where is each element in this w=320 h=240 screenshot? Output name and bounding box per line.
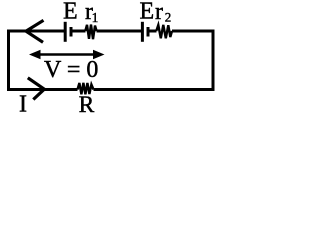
battery cell E1 long plate [64,22,67,42]
resistor R zigzag [78,83,94,95]
wire top segment from left corner to cell E1 [7,30,64,33]
wire bottom segment from resistor R to right corner [94,88,215,91]
arrow current direction on top wire (pointing left) [26,20,44,42]
wire right vertical [212,30,215,91]
label r2 (internal resistance) [155,0,171,25]
label R (load resistor) [79,92,95,118]
svg-text:V = 0: V = 0 [44,57,98,83]
arrow current direction on bottom wire (pointing right) [28,78,45,100]
wire between cell E2 and resistor r2 [148,30,157,33]
resistor r1 zigzag [85,25,96,40]
label E (cell E1) [63,0,78,25]
svg-text:2: 2 [165,9,172,24]
svg-text:R: R [79,92,95,118]
svg-text:I: I [19,92,27,118]
svg-text:E: E [63,0,78,25]
battery cell E2 long plate [141,22,144,42]
wire bottom segment from left corner to resistor R [7,88,78,91]
battery cell E2 short plate [147,27,150,37]
label V = 0 annotation [44,57,98,83]
wire top segment from resistor r2 to right corner [172,30,215,33]
svg-text:E: E [140,0,155,25]
label r1 (internal resistance) [85,0,98,25]
V = 0 dimension arrow right head [93,50,105,60]
wire left vertical [7,30,10,91]
label I (current) [19,92,27,118]
V = 0 dimension arrow left head [29,50,41,60]
V = 0 dimension arrow shaft [38,53,96,56]
label E (cell E2) [140,0,155,25]
battery cell E1 short plate [70,27,73,37]
wire between cell E1 and resistor r1 [71,30,86,33]
resistor r2 zigzag [156,25,172,39]
svg-text:r: r [155,0,163,25]
wire between resistor r1 and cell E2 [97,30,142,33]
svg-text:1: 1 [92,10,99,25]
